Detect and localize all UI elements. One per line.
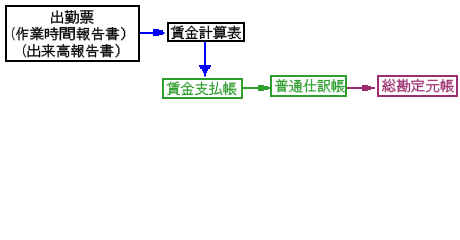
- box 総勘定元帳: [378, 76, 457, 96]
- arrow purple: 普通仕訳帳 box to 総勘定元帳 box: [347, 85, 375, 91]
- text line3 (出来高報告書): [23, 44, 119, 57]
- arrow blue: 出勤票 box to 賃金計算表 box: [140, 29, 165, 36]
- text 賃金計算表: [171, 26, 241, 39]
- box 出勤票/作業時間報告書/出来高報告書: [6, 6, 139, 61]
- text 賃金支払帳: [167, 82, 237, 95]
- box 賃金計算表: [168, 23, 244, 41]
- arrow blue down: 賃金計算表 box to 賃金支払帳 box: [199, 42, 211, 77]
- text line2 (作業時間報告書): [12, 27, 125, 40]
- box 賃金支払帳: [163, 79, 242, 98]
- text 普通仕訳帳: [275, 79, 345, 92]
- arrow green: 賃金支払帳 box to 普通仕訳帳 box: [243, 85, 270, 91]
- text line1 出勤票: [51, 10, 93, 23]
- text 総勘定元帳: [382, 79, 453, 92]
- box 普通仕訳帳: [271, 76, 346, 96]
